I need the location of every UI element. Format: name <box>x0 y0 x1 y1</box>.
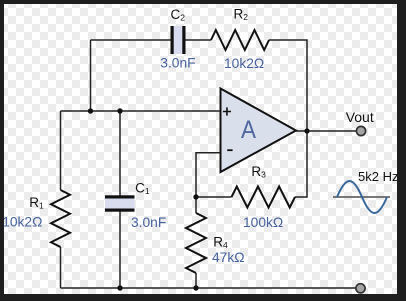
capacitor C1 body fill <box>105 197 135 210</box>
svg-text:R2: R2 <box>234 7 249 23</box>
wire: top net from C2 corner to R2 to right vertical <box>61 40 357 288</box>
op-amp - input sign <box>227 149 232 151</box>
sine wave symbol <box>337 181 387 213</box>
wire R4 top lead <box>195 197 197 213</box>
wire R3 right to right vertical <box>295 131 307 197</box>
wire vertical from C2 branch down to + input net <box>90 40 92 111</box>
wire bottom rail <box>61 287 356 289</box>
resistor R2 zigzag <box>211 30 269 50</box>
wire C1 branch lower <box>119 212 121 289</box>
svg-text:R3: R3 <box>251 164 266 180</box>
wire top horizontal right + right vertical down to output node <box>269 40 307 131</box>
junction node at feedback <box>193 194 198 199</box>
junction node at C1 bottom <box>117 285 122 290</box>
junction node at output <box>304 128 309 133</box>
resistor R1 zigzag <box>51 190 70 247</box>
op-amp + input sign <box>223 107 231 115</box>
junction node at C1 top branch <box>117 108 122 113</box>
svg-text:Vout: Vout <box>346 109 374 125</box>
op-amp U1 triangle <box>221 89 297 173</box>
svg-text:C2: C2 <box>171 7 186 23</box>
wire left vertical upper (to R1 top) <box>60 111 62 190</box>
junction node at R4 bottom <box>193 285 198 290</box>
resistor R4 zigzag <box>186 213 206 273</box>
wire top horizontal mid segment <box>186 39 212 41</box>
svg-text:A: A <box>241 116 256 144</box>
capacitor C1 bottom plate <box>105 209 135 212</box>
capacitor C1 top plate <box>105 195 135 198</box>
wire output from op-amp to terminal <box>296 130 356 132</box>
svg-text:100kΩ: 100kΩ <box>243 215 283 230</box>
border frame top <box>0 0 406 4</box>
output terminal Vout circle <box>356 126 365 135</box>
svg-text:R1: R1 <box>29 195 44 211</box>
svg-text:10k2Ω: 10k2Ω <box>2 214 42 229</box>
border frame left <box>0 0 4 301</box>
wire feedback node to R3 <box>196 196 232 198</box>
svg-text:C1: C1 <box>135 181 150 197</box>
border frame bottom <box>0 294 406 301</box>
capacitor C2 body fill <box>173 26 185 54</box>
svg-text:R4: R4 <box>213 235 228 251</box>
wire + input horizontal <box>61 110 221 112</box>
capacitor C2 right plate <box>182 26 185 54</box>
wire top horizontal left segment <box>91 39 172 41</box>
svg-text:47kΩ: 47kΩ <box>212 250 245 265</box>
wire C1 branch upper <box>119 111 121 196</box>
svg-text:3.0nF: 3.0nF <box>131 215 166 230</box>
svg-text:3.0nF: 3.0nF <box>160 56 195 71</box>
resistor R3 zigzag <box>232 187 296 208</box>
wire R4 bottom lead <box>195 273 197 288</box>
svg-text:5k2 Hz: 5k2 Hz <box>358 169 398 184</box>
border frame right <box>397 0 406 301</box>
svg-text:10k2Ω: 10k2Ω <box>224 56 264 71</box>
wire left vertical lower (R1 bottom to bottom rail) <box>60 247 62 288</box>
junction node at C2 branch <box>88 108 93 113</box>
capacitor C2 left plate <box>171 26 174 54</box>
bottom common terminal circle <box>356 284 365 293</box>
wire - input from op-amp to feedback node <box>196 153 221 197</box>
sine wave axis line <box>333 196 390 198</box>
